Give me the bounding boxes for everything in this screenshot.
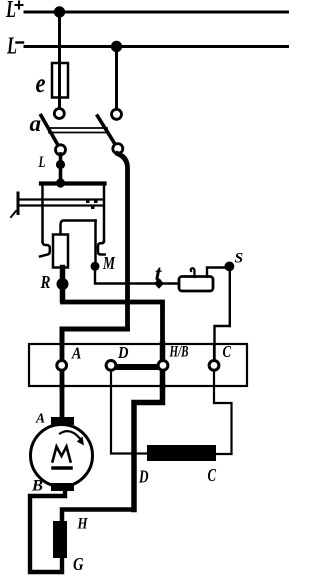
relay core left edge bbox=[41, 185, 44, 242]
label L- bbox=[6, 34, 17, 60]
wire terminal A through strip bbox=[60, 344, 65, 386]
label G bbox=[73, 554, 84, 574]
label B bbox=[31, 478, 43, 495]
wire node R to terminal H/B bbox=[63, 302, 163, 361]
field winding D-C bbox=[147, 445, 216, 461]
motor M symbol bbox=[53, 447, 71, 462]
label H/B bbox=[169, 344, 189, 361]
label H bbox=[77, 516, 88, 533]
svg-text:a: a bbox=[30, 111, 42, 136]
svg-text:S: S bbox=[235, 251, 244, 267]
label L bbox=[38, 154, 46, 171]
switch a left pole contact top bbox=[54, 109, 64, 119]
label A (strip) bbox=[71, 344, 81, 363]
terminal C bbox=[209, 361, 219, 371]
label S bbox=[235, 251, 244, 267]
winding G bbox=[53, 521, 67, 558]
wire terminal A to motor brush bbox=[60, 386, 65, 418]
junction on L+ bbox=[54, 6, 65, 17]
motor body bbox=[31, 425, 93, 487]
label C (winding) bbox=[208, 465, 217, 485]
label t bbox=[155, 261, 162, 286]
contact points on armature bbox=[86, 201, 98, 210]
svg-text:H/B: H/B bbox=[169, 344, 189, 361]
wire below terminal D bbox=[110, 365, 112, 386]
svg-text:D: D bbox=[138, 467, 148, 487]
terminal H/B bbox=[158, 361, 168, 371]
wire G top to node H bbox=[62, 510, 134, 522]
label R bbox=[40, 272, 51, 292]
label M bbox=[102, 253, 115, 273]
resistor at t (regulating resistor) bbox=[179, 277, 213, 292]
svg-text:A: A bbox=[35, 412, 45, 427]
terminal strip bbox=[29, 344, 247, 386]
wire winding to terminal C bbox=[214, 403, 232, 454]
svg-text:G: G bbox=[73, 554, 84, 574]
label D (strip) bbox=[117, 343, 128, 362]
motor M underline bbox=[53, 466, 71, 470]
junction on L- bbox=[111, 41, 122, 52]
label e bbox=[36, 68, 46, 98]
wire switch left pole to node L bbox=[59, 154, 63, 183]
wire node S down to terminal C bbox=[215, 266, 230, 360]
relay coil right end hook bbox=[98, 241, 105, 255]
wire brush B down-left loop to G bbox=[30, 490, 65, 572]
wire inner link down to node M bbox=[94, 221, 97, 263]
label A (motor) bbox=[35, 412, 45, 427]
node on core top bar bbox=[56, 178, 65, 187]
resistor tap curl bbox=[191, 268, 195, 277]
bridge bar D to H/B bbox=[113, 364, 161, 370]
label C (strip) bbox=[223, 342, 232, 361]
svg-text:L: L bbox=[5, 0, 16, 23]
motor top brush block bbox=[51, 417, 74, 425]
resistor inside regulator bbox=[53, 235, 68, 268]
net L+ bus line bbox=[25, 11, 289, 14]
wire main conductor to terminal A bbox=[62, 329, 128, 344]
node t bbox=[154, 278, 164, 288]
net L- bus line bbox=[25, 45, 289, 48]
svg-text:D: D bbox=[117, 343, 128, 362]
switch a right pole contact top bbox=[112, 109, 122, 119]
svg-text:C: C bbox=[223, 342, 232, 361]
svg-text:R: R bbox=[40, 272, 51, 292]
svg-text:M: M bbox=[102, 253, 115, 273]
armature pivot support bbox=[11, 193, 18, 217]
wire switch right pole down (main conductor) bbox=[118, 154, 128, 329]
node M bbox=[91, 262, 100, 271]
svg-text:H: H bbox=[77, 516, 88, 533]
switch linkage bbox=[49, 128, 107, 133]
switch a left blade bbox=[41, 116, 61, 150]
label D (winding) bbox=[138, 467, 148, 487]
rotation arrow inside motor bbox=[60, 431, 84, 445]
inner link from contact to resistor and M bbox=[61, 221, 96, 235]
relay core right edge bbox=[103, 185, 106, 241]
wire node M down and right to node t bbox=[95, 266, 179, 284]
wire L+ junction down to fuse bbox=[58, 12, 61, 109]
wire L- junction down to switch bbox=[115, 47, 118, 110]
label a bbox=[30, 111, 42, 136]
svg-text:L: L bbox=[6, 34, 17, 60]
armature arm lines bbox=[18, 200, 103, 206]
switch a right blade bbox=[98, 116, 118, 149]
svg-text:e: e bbox=[36, 68, 46, 98]
wire resistor bottom to node R bbox=[60, 268, 66, 301]
svg-text:t: t bbox=[155, 261, 162, 286]
wire terminal H/B through strip bbox=[160, 344, 166, 386]
svg-text:L: L bbox=[38, 154, 46, 171]
wire through terminal C bbox=[213, 344, 215, 403]
switch a right pole contact bottom bbox=[113, 144, 123, 154]
fuse e bbox=[52, 63, 68, 98]
svg-text:A: A bbox=[71, 344, 81, 363]
wire terminal H/B down to node H bbox=[134, 386, 163, 510]
terminal D bbox=[106, 361, 116, 371]
relay coil left end hook bbox=[40, 242, 50, 257]
node S bbox=[225, 262, 235, 272]
wire terminal D down to field winding bbox=[111, 386, 147, 454]
relay regulator core top bar bbox=[41, 181, 105, 185]
switch a left pole contact bottom bbox=[56, 145, 66, 155]
svg-text:B: B bbox=[31, 478, 43, 495]
motor bottom brush block bbox=[51, 483, 74, 491]
terminal A bbox=[57, 361, 67, 371]
svg-text:C: C bbox=[208, 465, 217, 485]
node L bbox=[56, 160, 65, 169]
label L+ bbox=[5, 0, 16, 23]
node R bbox=[57, 278, 69, 290]
wire resistor top to node S bbox=[207, 268, 225, 277]
